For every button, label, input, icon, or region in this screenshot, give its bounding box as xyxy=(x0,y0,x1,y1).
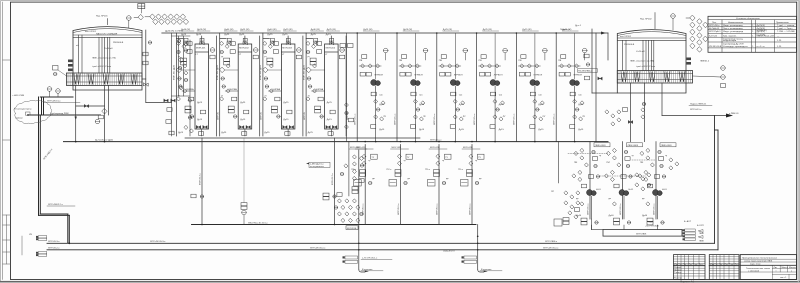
revision cloud xyxy=(14,100,52,123)
svg-text:с АЗС-УЖВ: с АЗС-УЖВ xyxy=(13,94,25,97)
aux line x558 xyxy=(558,142,560,183)
svg-text:ЖГВ-х-ВД.2-х: ЖГВ-х-ВД.2-х xyxy=(43,148,54,161)
svg-text:ЖГР-ЛВЖ-х: ЖГР-ЛВЖ-х xyxy=(545,241,558,243)
level arrow under tank xyxy=(75,117,77,121)
svg-text:Т.контр: Т.контр xyxy=(674,272,682,274)
instrument on tank V2 dome xyxy=(671,14,676,30)
svg-text:т: т xyxy=(776,271,777,273)
svg-text:1: 1 xyxy=(752,31,754,33)
column unit K4 xyxy=(303,33,349,136)
svg-text:МОН-001: МОН-001 xyxy=(196,48,206,50)
svg-text:ЗП: ЗП xyxy=(551,191,554,193)
diamonds under tank V2 xyxy=(605,110,609,114)
svg-text:Примечание: Примечание xyxy=(776,22,789,24)
gauge box left of tank V1 xyxy=(53,66,67,77)
svg-text:Т-риб. — Траст: Т-риб. — Траст xyxy=(777,28,793,30)
gauge boxes right of tank V1 xyxy=(143,52,148,56)
lower pipe under column area xyxy=(185,138,420,225)
top header pipe xyxy=(162,32,608,34)
pump unit P4 xyxy=(474,33,508,142)
right pump train R1 xyxy=(572,142,610,230)
svg-text:МОН-002: МОН-002 xyxy=(239,48,249,50)
pipes under tank V1 xyxy=(76,86,109,142)
svg-text:1: 1 xyxy=(752,46,754,48)
instrument pair left drain xyxy=(191,194,196,198)
svg-text:о---//---о: о---//---о xyxy=(757,46,766,48)
svg-text:П-АП: П-АП xyxy=(648,221,654,224)
svg-text:ЖГР-4Ж-х: ЖГР-4Ж-х xyxy=(709,25,720,27)
column unit K3 xyxy=(260,33,306,136)
pump area right separator xyxy=(595,33,597,142)
svg-text:ЛВЖ, опасность кл. ПА: ЛВЖ, опасность кл. ПА xyxy=(92,57,116,60)
metering cluster M1 xyxy=(338,199,342,203)
svg-text:Формат А1: Формат А1 xyxy=(680,280,695,283)
svg-text:Т-диб. — темпер.: Т-диб. — темпер. xyxy=(777,25,795,27)
svg-text:лист 1: лист 1 xyxy=(780,277,787,279)
svg-text:Т-25В — 1.25 МВ: Т-25В — 1.25 МВ xyxy=(777,31,795,33)
tank V1 (left storage tank) xyxy=(73,19,142,91)
svg-text:Масшт: Масшт xyxy=(789,267,796,269)
metering cluster label xyxy=(346,226,358,230)
svg-text:ЖГР-ПрБ-1: ЖГР-ПрБ-1 xyxy=(709,31,721,33)
svg-text:Масса: Масса xyxy=(782,267,789,269)
lower train T4 xyxy=(458,145,484,225)
tank V2 heating coil band xyxy=(617,71,692,84)
valve on under-tank header xyxy=(84,105,88,108)
column unit K2 xyxy=(217,33,263,136)
svg-text:МОН-004: МОН-004 xyxy=(326,48,336,50)
bottom pipe line 2 xyxy=(47,130,718,250)
tank V1 heating coil band xyxy=(67,73,143,86)
svg-text:поз. КР202: поз. КР202 xyxy=(620,36,632,38)
pump unit P5 xyxy=(514,33,548,142)
pump unit P3 xyxy=(434,33,468,142)
svg-text:свищ Ж1ГО: свищ Ж1ГО xyxy=(443,251,455,253)
svg-text:Трубопровод ЛВЖ: Трубопровод ЛВЖ xyxy=(50,113,69,115)
svg-text:ЖГР-4Ж 05.2-х: ЖГР-4Ж 05.2-х xyxy=(543,248,559,250)
svg-text:ЖГР-4Ж 05.3-х: ЖГР-4Ж 05.3-х xyxy=(150,241,166,243)
svg-text:Х-ГУ-05: Х-ГУ-05 xyxy=(709,35,718,37)
bottom pipe line 1 xyxy=(47,116,715,244)
diamond on under-tank line xyxy=(102,109,107,114)
safety valve diamond above tank V1 xyxy=(134,15,143,20)
svg-text:об.: об. xyxy=(76,45,79,47)
svg-text:РВС600-В: РВС600-В xyxy=(624,44,635,46)
svg-text:МОУФХБ: МОУФХБ xyxy=(347,227,357,230)
tank V1 left nozzles xyxy=(68,60,73,72)
pipe right of tank V1 xyxy=(142,30,172,103)
svg-text:Жидк. углеводород: Жидк. углеводород xyxy=(723,25,743,27)
pipe from tank V1 left side xyxy=(39,97,74,243)
pipes under tank V2 xyxy=(631,83,727,142)
svg-text:на осушитель: на осушитель xyxy=(310,166,325,168)
svg-text:Нар. КР201: Нар. КР201 xyxy=(96,16,108,18)
pump unit P6 xyxy=(554,33,588,142)
svg-text:конденсации: конденсации xyxy=(723,40,737,42)
mid filter unit F1 xyxy=(172,33,191,136)
svg-text:2: 2 xyxy=(752,28,754,30)
vent diamond chain right xyxy=(690,15,695,20)
tank V2 right nozzles xyxy=(687,58,692,65)
svg-text:ЛВЖ01.2: ЛВЖ01.2 xyxy=(700,61,710,63)
svg-text:к ЛВЖ-01: к ЛВЖ-01 xyxy=(729,113,739,115)
svg-text:Б. АОТ: Б. АОТ xyxy=(684,220,692,223)
svg-text:ЖГР-05.1-х: ЖГР-05.1-х xyxy=(430,139,442,141)
svg-text:ЖГР-4Ж02.2-х: ЖГР-4Ж02.2-х xyxy=(48,204,64,206)
tie lines between right trains xyxy=(568,154,656,177)
svg-text:1: 1 xyxy=(752,25,754,27)
svg-text:схема парка хранения ЛВЖ: схема парка хранения ЛВЖ xyxy=(744,260,772,262)
svg-text:V=20 м3: V=20 м3 xyxy=(636,51,645,53)
pump unit P2 xyxy=(394,33,428,142)
svg-text:t раб = 20 С, Р атм: t раб = 20 С, Р атм xyxy=(636,65,655,68)
svg-text:V=20 м3: V=20 м3 xyxy=(104,48,113,50)
svg-text:Б.ОУП: Б.ОУП xyxy=(697,225,704,227)
flame arrestor diamond chain top-left xyxy=(145,14,189,24)
drain D1 to sewer xyxy=(359,225,365,273)
svg-text:сливом: сливом xyxy=(15,118,23,120)
lower train T2 xyxy=(387,145,413,225)
pipe feeding tank V2 xyxy=(592,29,617,93)
circle instrument under tank xyxy=(95,119,100,124)
svg-text:Наименование: Наименование xyxy=(728,22,744,24)
column unit K1 xyxy=(174,33,220,136)
main feed line from cloud xyxy=(28,114,101,116)
svg-text:Нар. КР202: Нар. КР202 xyxy=(640,19,652,21)
svg-text:УВ-3Ж-05-В: УВ-3Ж-05-В xyxy=(709,46,722,48)
svg-text:Углеводор. производств.: Углеводор. производств. xyxy=(723,46,748,48)
pump unit P1 xyxy=(355,33,389,142)
title block xyxy=(674,255,797,280)
svg-text:Жид-т. углеводород: Жид-т. углеводород xyxy=(723,31,744,33)
svg-text:МОУ-05.2-х: МОУ-05.2-х xyxy=(200,172,202,185)
svg-text:Условные обозначения: Условные обозначения xyxy=(736,18,760,20)
svg-text:ЖВ-УЖка 40.10.5-х: ЖВ-УЖка 40.10.5-х xyxy=(248,222,268,224)
lower train T1 xyxy=(351,145,377,225)
svg-text:поз. КР201: поз. КР201 xyxy=(85,31,97,33)
svg-text:с обвязкой: с обвязкой xyxy=(748,270,760,273)
svg-text:водопровод насыщ.: водопровод насыщ. xyxy=(723,39,743,41)
svg-text:+50 РУПОШБ: +50 РУПОШБ xyxy=(645,226,659,228)
tank V2 (right storage tank) xyxy=(617,13,686,94)
instrument circles on left pipe xyxy=(47,87,52,97)
svg-text:ЛВЖ: ЛВЖ xyxy=(699,241,704,243)
svg-text:ЛВЖ, опасность кл. ПА: ЛВЖ, опасность кл. ПА xyxy=(630,60,654,63)
aux diamonds cluster right area xyxy=(564,191,568,195)
svg-text:Принципиальная технологическая: Принципиальная технологическая xyxy=(742,257,778,259)
instruments right of tank V2 xyxy=(721,66,726,71)
svg-text:ЖГР-ЛВЖ: ЖГР-ЛВЖ xyxy=(636,233,646,235)
svg-text:Пар-т. углеводород: Пар-т. углеводород xyxy=(723,28,743,30)
drain collection line xyxy=(192,224,477,226)
right pump train R2 xyxy=(605,142,643,230)
sample point instrument xyxy=(242,210,247,215)
svg-text:РВС600-В: РВС600-В xyxy=(113,42,124,44)
svg-text:Ду к.1: Ду к.1 xyxy=(575,25,582,27)
svg-text:МОУ-05.2-х: МОУ-05.2-х xyxy=(332,172,334,185)
svg-text:ЖГР-04.1-х: ЖГР-04.1-х xyxy=(690,109,702,111)
left margin ticks xyxy=(3,60,11,264)
box under tank xyxy=(98,115,103,119)
instrument LT on tank V1 dome xyxy=(127,16,132,28)
svg-text:парк. блок: парк. блок xyxy=(750,264,760,266)
svg-text:Из автоцистерны: Из автоцистерны xyxy=(14,109,32,111)
svg-text:t раб = 20 С, Р атм: t раб = 20 С, Р атм xyxy=(92,65,111,68)
drain instrument column xyxy=(348,142,350,196)
svg-text:Лит: Лит xyxy=(774,267,778,269)
outlet labels stack xyxy=(683,229,685,231)
svg-text:Щ-ПрБ-05: Щ-ПрБ-05 xyxy=(709,28,720,30)
drain D2 to sewer xyxy=(478,225,484,273)
svg-text:паропровод Ду, 25 Е: паропровод Ду, 25 Е xyxy=(723,44,744,46)
svg-text:УВ: УВ xyxy=(29,234,32,236)
svg-text:х: х xyxy=(791,271,793,273)
instrument pair mid drain xyxy=(323,193,329,200)
svg-text:Щ-25(Ж): Щ-25(Ж) xyxy=(757,35,766,37)
svg-text:МОН-003: МОН-003 xyxy=(282,48,292,50)
main horizontal pipe under columns/pumps xyxy=(64,141,609,143)
svg-text:о-(25Е-Ж): о-(25Е-Ж) xyxy=(757,30,767,32)
svg-text:ЛВЖ: ЛВЖ xyxy=(699,233,704,235)
outlet arrow to consumers xyxy=(726,114,733,118)
legend table xyxy=(708,16,797,52)
svg-text:НАСОСН. СТАНЦИЯ: НАСОСН. СТАНЦИЯ xyxy=(96,32,118,35)
svg-text:Поз.: Поз. xyxy=(712,22,717,24)
right pump train R3 xyxy=(638,142,676,230)
svg-text:ЖГР-05.2-х: ЖГР-05.2-х xyxy=(48,248,60,250)
control box above tank V1 xyxy=(138,4,145,13)
svg-text:Хим. загрязн.: Хим. загрязн. xyxy=(723,35,737,37)
svg-text:Изм Кол Лист Док Подп Дата: Изм Кол Лист Док Подп Дата xyxy=(674,264,704,266)
collector header xyxy=(603,230,682,237)
mid unit bottom valves xyxy=(164,99,168,102)
svg-text:Изм Кол Лист Док Подп Дата: Изм Кол Лист Док Подп Дата xyxy=(710,264,740,266)
svg-text:1.25: 1.25 xyxy=(777,46,782,48)
svg-text:ЖГР-05.3-х: ЖГР-05.3-х xyxy=(48,241,60,243)
lower train T3 xyxy=(425,145,451,225)
svg-text:ЖГР-4Ж 05.2-х: ЖГР-4Ж 05.2-х xyxy=(310,248,326,250)
svg-text:Технологическая схема: Технологическая схема xyxy=(746,268,771,270)
svg-text:Ду25(Ж): Ду25(Ж) xyxy=(757,25,766,27)
